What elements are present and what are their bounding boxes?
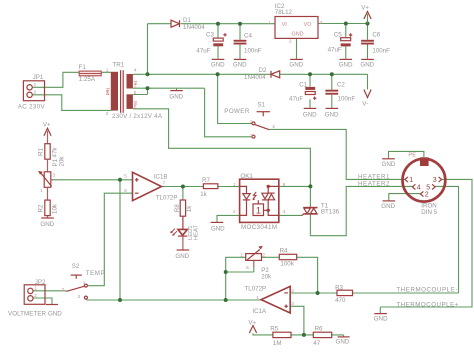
svg-text:GND: GND (336, 339, 350, 346)
svg-text:AC 230V: AC 230V (18, 104, 46, 111)
svg-text:S1: S1 (257, 101, 265, 108)
svg-text:R6: R6 (315, 325, 323, 332)
svg-text:GND: GND (48, 310, 62, 317)
svg-text:20k: 20k (261, 273, 272, 280)
svg-text:GND: GND (360, 61, 374, 68)
svg-text:R4: R4 (280, 248, 288, 255)
wire: feedback riser to P2 pin1 (226, 257, 246, 300)
svg-text:47uF: 47uF (289, 96, 303, 103)
svg-text:IC1B: IC1B (154, 173, 168, 180)
wire: S1 pin2 HEATER1 to DIN pin1 (270, 129, 405, 179)
svg-text:470: 470 (335, 297, 346, 304)
svg-text:GND: GND (211, 225, 225, 232)
svg-text:F1: F1 (79, 64, 87, 71)
svg-text:TEMP: TEMP (86, 270, 105, 277)
wire: V+ to R5 (253, 333, 273, 335)
svg-text:1: 1 (268, 20, 271, 25)
svg-text:3: 3 (53, 173, 56, 178)
wire: triac MT1 HEATER2 to DIN pin4 (310, 186, 412, 235)
ground under R2 (40, 218, 54, 228)
triac T1 BT136 (302, 202, 340, 215)
resistor R8 1k (174, 200, 193, 216)
svg-text:GND: GND (40, 221, 54, 228)
svg-text:1k: 1k (186, 205, 193, 212)
wire: C6 drop (367, 24, 369, 59)
svg-text:OK1: OK1 (240, 173, 253, 180)
svg-text:THERMOCOUPLE-: THERMOCOUPLE- (396, 287, 457, 294)
wire: C3 drop (217, 24, 219, 59)
svg-text:5: 5 (426, 184, 430, 191)
svg-text:R2: R2 (38, 204, 45, 212)
svg-text:C5: C5 (334, 32, 342, 39)
supply V- (362, 90, 371, 108)
svg-text:47: 47 (313, 340, 320, 347)
ground thermocouple+ (374, 314, 388, 323)
svg-text:HEATER1: HEATER1 (358, 174, 390, 181)
diode D2 1N4004 (244, 67, 280, 81)
wire: IC1B out to R7 to OK1 (162, 186, 240, 188)
svg-text:100nF: 100nF (244, 47, 262, 54)
ground center tap (169, 91, 183, 101)
svg-text:230V / 2x12V 4A: 230V / 2x12V 4A (112, 113, 163, 120)
wire: AC rail TR pin4 to D2 (133, 73, 271, 75)
svg-text:R1: R1 (38, 148, 45, 156)
ground under C4 (233, 59, 247, 68)
svg-text:R7: R7 (202, 177, 210, 184)
resistor R6 47 (313, 325, 331, 347)
svg-text:6: 6 (134, 104, 137, 109)
resistor R1 47k (38, 144, 59, 160)
svg-text:VO: VO (304, 22, 312, 28)
svg-text:1: 1 (83, 280, 86, 285)
svg-text:6: 6 (283, 182, 286, 187)
svg-text:GND: GND (325, 111, 339, 118)
svg-text:2: 2 (289, 39, 292, 44)
svg-text:1: 1 (34, 82, 37, 87)
svg-text:7: 7 (163, 180, 166, 185)
svg-text:V+: V+ (248, 319, 256, 326)
ground under C5 (339, 59, 353, 68)
potentiometer P2 20k (240, 246, 272, 280)
svg-text:3: 3 (250, 133, 253, 138)
ground under C1 (303, 108, 317, 118)
svg-text:3: 3 (320, 20, 323, 25)
svg-text:V+: V+ (43, 122, 51, 129)
potentiometer P1 20k (38, 156, 66, 193)
svg-text:TR1: TR1 (113, 62, 125, 69)
svg-text:BT136: BT136 (321, 209, 340, 216)
svg-text:1: 1 (250, 119, 253, 124)
wire: R5 to R6 (291, 334, 313, 336)
svg-text:HEAT: HEAT (193, 225, 199, 240)
wire: C4 drop (239, 24, 241, 59)
switch S1 POWER (224, 101, 275, 138)
svg-text:5: 5 (124, 174, 127, 179)
ground JP2 (46, 305, 62, 318)
svg-text:R8: R8 (174, 204, 181, 212)
svg-text:5: 5 (134, 90, 137, 95)
svg-text:JP2: JP2 (35, 279, 46, 286)
svg-text:GND: GND (292, 32, 304, 38)
capacitor C5 47uF (328, 32, 353, 54)
resistor R2 10k (38, 187, 59, 217)
svg-text:1: 1 (256, 295, 259, 300)
svg-text:C1: C1 (299, 82, 307, 89)
svg-text:78L12: 78L12 (275, 9, 293, 16)
svg-text:100nF: 100nF (338, 96, 356, 103)
wire: riser to D1 (147, 24, 149, 75)
svg-text:GND: GND (374, 316, 388, 323)
wire: P2 to R4 to inverting node (262, 257, 318, 293)
svg-text:C4: C4 (244, 32, 252, 39)
resistor R7 1k (200, 177, 218, 198)
wire: vertical setpoint net (119, 180, 121, 300)
wire: TR pin6 to triac MT2 node (133, 109, 311, 187)
svg-text:2: 2 (106, 111, 109, 116)
svg-text:3: 3 (433, 177, 437, 184)
wire: PE to GND (389, 151, 424, 158)
svg-text:GND: GND (233, 61, 247, 68)
resistor R3 470 (335, 284, 352, 303)
wire: D1 anode rail (148, 23, 172, 25)
svg-text:3: 3 (77, 294, 80, 299)
fuse F1 (79, 64, 102, 83)
wire: rail to S1 pin1 (218, 74, 252, 123)
svg-text:1: 1 (256, 206, 261, 216)
wire: JP1 pin1 to F1 to TR pin1 (33, 72, 111, 87)
svg-text:47k: 47k (52, 147, 59, 158)
wire: IC1B - input to S2 pin1 (88, 193, 133, 286)
svg-text:IC1A: IC1A (252, 308, 267, 315)
wire: triac MT2 (309, 186, 311, 207)
wire: JP2 pin1 to S2 common (33, 290, 66, 292)
svg-text:GND: GND (211, 61, 225, 68)
wire: IC2 GND pin (296, 38, 298, 58)
svg-text:1: 1 (240, 253, 243, 258)
wire: IC1A - input R3 (290, 292, 458, 294)
wire: IC2 VO to V+ (318, 23, 368, 25)
DIN5 connector IRON (403, 153, 446, 216)
svg-text:C3: C3 (206, 32, 214, 39)
svg-text:S2: S2 (72, 263, 80, 270)
switch S2 TEMP (61, 263, 104, 299)
svg-text:GND: GND (339, 61, 353, 68)
wire: OK1 pin4 to T1 gate (279, 214, 302, 216)
wire: center tap (133, 88, 205, 94)
wire: P2 wiper join (226, 267, 254, 272)
svg-text:C2: C2 (337, 82, 345, 89)
svg-text:1: 1 (34, 286, 37, 291)
wire: +raw rail D1 to IC2 VI (181, 23, 275, 25)
svg-text:2: 2 (272, 124, 275, 129)
ground under C6 (360, 59, 374, 68)
svg-text:4: 4 (134, 67, 137, 72)
supply V+ left (43, 122, 51, 144)
ground OK1 pin2 (211, 222, 225, 232)
svg-text:V-: V- (362, 100, 368, 107)
opamp IC1B (124, 172, 177, 201)
resistor R4 100k (279, 248, 296, 268)
wire: bottom net S2 pin3 to IC1A out (87, 299, 262, 301)
svg-text:2: 2 (34, 90, 37, 95)
LED1 HEAT (170, 216, 199, 250)
wire: DIN pin3 THERMOCOUPLE+ (380, 179, 472, 313)
diode D1 1N4004 (171, 17, 205, 31)
svg-text:2: 2 (34, 293, 37, 298)
svg-text:1N4004: 1N4004 (183, 24, 205, 31)
wire: C2 drop (331, 74, 333, 108)
svg-text:VI: VI (282, 22, 287, 28)
supply V+ bottom (248, 319, 256, 333)
svg-text:PRI: PRI (106, 88, 111, 95)
opamp IC1A (245, 285, 295, 315)
wire: C5 drop (345, 24, 347, 59)
svg-text:100k: 100k (280, 261, 294, 268)
svg-text:47uF: 47uF (196, 47, 210, 54)
wire: IC1A + input (290, 306, 304, 335)
svg-text:GND: GND (381, 203, 395, 210)
wire: P1 wiper to IC1B + (53, 179, 133, 181)
ground under C2 (325, 108, 339, 118)
wire: JP1 pin2 to TR pin2 (33, 95, 111, 111)
connector JP1 (18, 74, 46, 111)
capacitor C2 100nF (325, 82, 355, 103)
capacitor C6 100nF (361, 32, 390, 55)
svg-text:6: 6 (124, 188, 127, 193)
svg-text:D2: D2 (259, 67, 267, 74)
wire: center tap to S1 pin3 (205, 88, 252, 137)
svg-text:1M: 1M (273, 340, 282, 347)
supply V+ top (361, 5, 371, 24)
capacitor C1 47uF (289, 82, 316, 103)
svg-text:S: S (246, 265, 249, 270)
svg-text:1k: 1k (200, 191, 207, 198)
svg-text:10k: 10k (52, 203, 59, 214)
svg-text:4: 4 (283, 209, 286, 214)
svg-text:GND: GND (169, 94, 183, 101)
svg-text:MOC3041M: MOC3041M (241, 224, 277, 231)
svg-text:1: 1 (233, 182, 236, 187)
svg-text:VOLTMETER: VOLTMETER (8, 310, 47, 317)
svg-text:2: 2 (425, 192, 429, 199)
svg-text:GND: GND (303, 111, 317, 118)
ground under LED1 (175, 250, 189, 260)
svg-text:R3: R3 (335, 284, 343, 291)
svg-text:GND: GND (289, 61, 303, 68)
svg-text:2: 2 (263, 253, 266, 258)
wire: OK1 pin6 (279, 185, 311, 187)
wire: R8 top (182, 187, 184, 201)
transformer TR1 (106, 62, 163, 121)
svg-text:HEATER2: HEATER2 (358, 181, 390, 188)
svg-text:1N4004: 1N4004 (244, 74, 266, 81)
svg-text:20k: 20k (59, 156, 66, 167)
resistor R5 1M (270, 325, 291, 347)
svg-text:2: 2 (233, 209, 236, 214)
capacitor C3 47uF (196, 32, 226, 55)
connector JP2 (8, 279, 47, 317)
svg-text:1.25A: 1.25A (79, 76, 96, 83)
ground at PE (382, 159, 396, 168)
ground under C3 (211, 59, 225, 68)
wire: DIN pin2 to GND (389, 194, 421, 201)
svg-text:GND: GND (175, 253, 189, 260)
ground after R6 (336, 337, 350, 346)
svg-text:1: 1 (40, 188, 43, 193)
svg-text:PE: PE (408, 153, 416, 159)
svg-text:1: 1 (409, 177, 413, 184)
svg-text:TL072P: TL072P (245, 285, 267, 292)
ground under IC2 (289, 59, 303, 68)
svg-text:JP1: JP1 (33, 74, 44, 81)
svg-text:DIN 5: DIN 5 (421, 209, 437, 216)
svg-text:THERMOCOUPLE+: THERMOCOUPLE+ (396, 302, 458, 309)
svg-text:1: 1 (106, 68, 109, 73)
svg-text:GND: GND (382, 161, 396, 168)
svg-text:POWER: POWER (224, 108, 250, 115)
ground DIN pin2 (381, 201, 395, 210)
svg-text:TL072P: TL072P (156, 195, 178, 202)
svg-text:2: 2 (291, 288, 294, 293)
wire: OK1 pin2 to GND (217, 215, 240, 222)
wire: JP2 pin2 to GND (33, 298, 52, 304)
wire: R6 to GND (332, 335, 344, 337)
wire: DIN pin5 THERMOCOUPLE- (435, 186, 459, 293)
capacitor C4 100nF (234, 32, 262, 54)
svg-text:R5: R5 (270, 325, 278, 332)
svg-text:7: 7 (134, 84, 137, 89)
svg-text:100nF: 100nF (372, 47, 390, 54)
wire: C1 drop (309, 74, 311, 108)
svg-text:47uF: 47uF (328, 47, 342, 54)
optocoupler OK1 MOC3041M (233, 173, 286, 231)
svg-text:V+: V+ (361, 5, 369, 12)
svg-text:4: 4 (417, 184, 421, 191)
wire: D2 to V- (280, 74, 367, 89)
svg-text:3: 3 (291, 301, 294, 306)
svg-text:C6: C6 (372, 32, 380, 39)
IC2 78L12 regulator (268, 3, 322, 43)
svg-text:2: 2 (61, 287, 64, 292)
